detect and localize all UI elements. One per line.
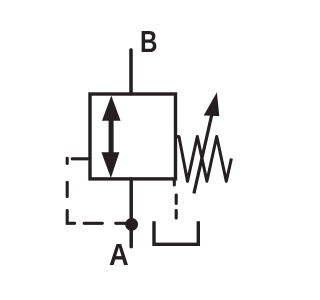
tank symbol [154,221,198,244]
pilot line corner dash top [66,158,69,163]
drain line dash 2 [175,195,178,203]
flow arrow head up inside valve box [102,96,121,121]
port label B [140,26,157,57]
pilot line bottom dash 2 [116,222,126,225]
adjustment arrow head [204,92,220,116]
junction node dot at port A [125,218,138,231]
flow arrow shaft inside valve box [109,119,114,154]
wire port B line [129,50,133,94]
flow arrow head down inside valve box [101,152,119,178]
pilot line corner dash bottom [67,211,74,224]
drain line dash 3 [175,211,178,218]
pilot line vertical dash [66,182,69,196]
adjustable spring [176,137,232,182]
valve body box [90,94,176,179]
wire port A line [129,179,133,247]
adjustment arrow shaft [194,113,212,194]
pilot line bottom dash 1 [84,222,102,225]
port label A [109,239,129,270]
pilot line dash at box left [72,157,87,160]
drain line dash stub at box corner [173,181,176,185]
